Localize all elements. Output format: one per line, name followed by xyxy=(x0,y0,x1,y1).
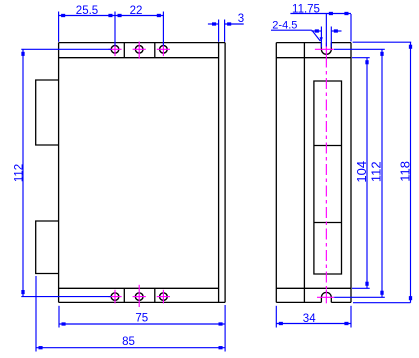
left view body outline bottom edge xyxy=(59,301,226,303)
side view outline top edge (broken at slot) xyxy=(276,42,321,44)
dimension 11.75 extension line (right edge) xyxy=(350,14,352,42)
dimension 2-4.5 extension lines xyxy=(320,27,322,48)
svg-text:104: 104 xyxy=(354,161,369,183)
dimension 112 extension line bottom xyxy=(21,296,111,298)
dimension 75/85 extension line right xyxy=(224,305,226,352)
left view body outline left edge xyxy=(58,43,60,303)
hole centerline cross (bottom) xyxy=(133,296,146,298)
side view outline right edge xyxy=(350,43,352,303)
dimension line 34 xyxy=(276,323,351,325)
left view body outline top edge xyxy=(59,42,226,44)
side view outline bottom edge (broken at slot) xyxy=(276,301,321,303)
mounting hole top-middle xyxy=(135,46,143,54)
upper left connector tab xyxy=(36,80,59,145)
mounting hole top-right xyxy=(160,46,168,54)
svg-text:112: 112 xyxy=(14,164,26,182)
dimension 85 extension line left xyxy=(35,276,37,352)
dimension line 75 xyxy=(59,323,225,325)
side view bottom strip line xyxy=(276,287,351,289)
dimension 112 extension line top xyxy=(21,48,111,50)
bottom mounting slot xyxy=(321,292,331,302)
hole centerline cross (bottom) xyxy=(157,296,170,298)
dimension line 112 right xyxy=(381,49,383,297)
hole centerline cross (top) xyxy=(108,48,121,50)
svg-text:34: 34 xyxy=(303,313,316,325)
dimension line 11.75 xyxy=(290,13,351,15)
left view mounting plate right edge xyxy=(224,43,226,303)
svg-text:118: 118 xyxy=(398,161,413,182)
top mounting strip bottom line xyxy=(59,57,219,59)
dimension line 112 left xyxy=(22,49,24,296)
lower left connector tab xyxy=(36,221,59,274)
svg-text:3: 3 xyxy=(238,13,244,25)
svg-text:75: 75 xyxy=(135,312,148,324)
vertical centerline through slots (magenta) xyxy=(325,43,327,57)
dimension 25.5/22 extension line middle xyxy=(114,12,116,46)
bottom mounting strip top line xyxy=(59,287,219,289)
mounting hole bottom-left xyxy=(111,293,119,301)
top strip divider 2 xyxy=(154,43,156,58)
svg-text:112: 112 xyxy=(369,161,384,182)
mounting hole bottom-middle xyxy=(135,293,143,301)
hole centerline cross (bottom) xyxy=(108,296,121,298)
dimension line 3 (outside arrows) xyxy=(208,23,219,25)
bottom strip divider 1 xyxy=(123,288,125,302)
side view inner slot rectangle xyxy=(314,81,342,274)
dimension 3 extension lines xyxy=(218,20,220,42)
side view top strip line xyxy=(276,57,351,59)
top slot horizontal centerline xyxy=(315,48,334,50)
dimension line 118 xyxy=(410,42,412,303)
mounting hole top-left xyxy=(111,46,119,54)
svg-text:25.5: 25.5 xyxy=(76,5,98,17)
dimension line 85 xyxy=(36,347,225,349)
dimension line 25.5 and 22 xyxy=(59,15,164,17)
dimension 75 extension line left xyxy=(58,306,60,328)
inner slot divider line 2 xyxy=(314,222,342,224)
dimension 22 extension line right xyxy=(162,12,164,46)
dimension 34 extension lines xyxy=(275,306,277,328)
dimension 11.75 extension line (slot center) xyxy=(325,14,327,47)
svg-text:11.75: 11.75 xyxy=(292,4,320,16)
inner slot divider line 1 xyxy=(314,145,342,147)
dimension 118 extension lines xyxy=(353,41,412,43)
svg-text:85: 85 xyxy=(122,336,135,348)
top strip divider 1 xyxy=(123,43,125,58)
left view body inner right edge xyxy=(218,43,220,303)
side view inner vertical line xyxy=(303,43,305,303)
side view outline left edge xyxy=(275,43,277,303)
bottom slot horizontal centerline xyxy=(317,296,334,298)
bottom strip divider 2 xyxy=(154,288,156,302)
hole centerline cross (top) xyxy=(133,48,146,50)
top mounting slot xyxy=(321,43,331,55)
mounting hole bottom-right xyxy=(160,293,168,301)
hole centerline cross (top) xyxy=(157,48,170,50)
dimension line 104 xyxy=(366,58,368,289)
dimension 112 extension lines right xyxy=(334,48,385,50)
svg-text:22: 22 xyxy=(130,5,143,17)
dimension line 2-4.5 (outside arrows) xyxy=(312,30,322,32)
dimension 104 extension lines xyxy=(352,57,370,59)
dimension 25.5 extension line left xyxy=(58,12,60,42)
